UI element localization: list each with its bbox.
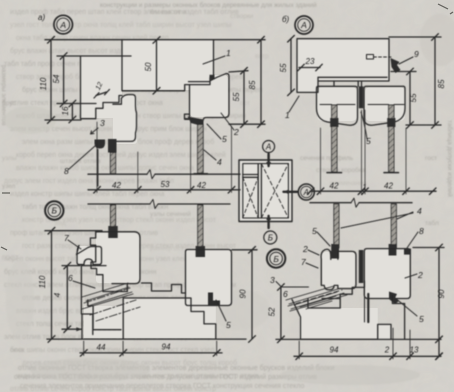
inner dim BL bbox=[66, 266, 68, 330]
right glass pane TR bbox=[389, 105, 394, 172]
left vent sash profile bbox=[112, 95, 137, 142]
svg-text:55: 55 bbox=[279, 63, 288, 72]
detail label circle B heavy bbox=[267, 249, 285, 267]
dim 110 vertical line bbox=[50, 40, 52, 120]
svg-text:90: 90 bbox=[239, 289, 248, 298]
dim 85 vertical bbox=[260, 40, 262, 125]
left sash profile bbox=[317, 86, 358, 125]
frame left block bbox=[81, 56, 123, 119]
section cut mark right bbox=[284, 191, 298, 193]
svg-text:блоков типа: блоков типа bbox=[150, 8, 187, 16]
section circle A right (heavy) bbox=[298, 184, 314, 200]
svg-text:6: 6 bbox=[68, 273, 73, 283]
astragal gap dark BR bbox=[359, 250, 364, 283]
left glass pane bbox=[110, 153, 115, 174]
left glazing bead dark bbox=[108, 139, 117, 153]
svg-text:вид: вид bbox=[55, 220, 66, 227]
svg-text:2: 2 bbox=[384, 346, 390, 355]
right sash dark notch bbox=[208, 293, 220, 306]
gasket symbol small rect with dashed leader bbox=[367, 55, 374, 60]
dim 55 right bbox=[409, 72, 411, 126]
svg-text:2: 2 bbox=[417, 270, 423, 280]
svg-text:55: 55 bbox=[232, 92, 241, 101]
left sash BR bbox=[321, 249, 356, 290]
scan speck top right bbox=[438, 4, 448, 9]
svg-text:3: 3 bbox=[100, 118, 105, 128]
hinge pin line bbox=[97, 150, 99, 187]
svg-text:А: А bbox=[303, 188, 309, 197]
svg-text:53: 53 bbox=[161, 180, 170, 189]
dashed opening diagonals right pane bbox=[261, 164, 288, 218]
window elevation inner frame bbox=[243, 164, 289, 218]
svg-text:4: 4 bbox=[417, 206, 422, 216]
svg-text:узел: узел bbox=[2, 183, 16, 190]
sill board hatched BL bbox=[82, 283, 140, 321]
svg-text:5: 5 bbox=[312, 226, 317, 236]
dim 110 top extension bbox=[45, 230, 102, 232]
extension lines BR bottom bbox=[299, 328, 410, 359]
svg-text:50: 50 bbox=[144, 62, 153, 71]
svg-text:конструкции и размеры оконных: конструкции и размеры оконных блоков дер… bbox=[100, 1, 317, 9]
dim 52 BR bbox=[280, 287, 282, 339]
dim 55 vertical bbox=[243, 71, 245, 125]
left bead dark BL bbox=[108, 226, 117, 238]
frame bottom box BL bbox=[82, 298, 216, 339]
sill board hatched BR bbox=[286, 286, 347, 311]
svg-text:5: 5 bbox=[419, 314, 424, 324]
svg-text:б): б) bbox=[282, 15, 290, 24]
dim 54 vertical line bbox=[63, 56, 65, 104]
bottom dimension line bbox=[88, 189, 240, 191]
right glass pane BL bbox=[198, 205, 203, 249]
right glass pane BR bbox=[391, 204, 396, 248]
bottom boundary line with break bbox=[88, 173, 240, 175]
svg-text:94: 94 bbox=[330, 346, 339, 355]
bottom dim line BR bbox=[294, 355, 441, 357]
svg-text:23: 23 bbox=[305, 57, 315, 66]
svg-text:размер ост: размер ост bbox=[150, 245, 184, 252]
frame corner dark bead bbox=[210, 75, 215, 80]
left bead dark BR bbox=[331, 244, 339, 259]
svg-text:4: 4 bbox=[217, 157, 222, 167]
left glass pane BL bbox=[110, 205, 115, 228]
svg-text:85: 85 bbox=[248, 80, 257, 89]
light paper TL left block bbox=[81, 56, 123, 118]
svg-text:16: 16 bbox=[61, 106, 70, 115]
right sash profile (component 2) bbox=[185, 74, 230, 121]
top boundary line BR with break bbox=[310, 202, 412, 204]
svg-text:6: 6 bbox=[283, 289, 288, 299]
detail mark circle B (bottom-left) bbox=[45, 201, 63, 219]
corner joint dark piece bbox=[391, 58, 401, 73]
dim ticks BL bottom bbox=[80, 350, 220, 357]
right bead dark BL bbox=[196, 246, 205, 257]
bottom boundary line BR bbox=[276, 338, 441, 340]
svg-text:5: 5 bbox=[226, 320, 231, 330]
svg-text:сечения профиль: сечения профиль bbox=[300, 155, 354, 162]
left glass pane BR bbox=[334, 204, 339, 248]
svg-text:55: 55 bbox=[409, 93, 418, 102]
top boundary line BL with break bbox=[88, 203, 230, 205]
section cut mark top bbox=[267, 154, 269, 166]
svg-text:Б: Б bbox=[268, 234, 273, 243]
dim 54 top extension bbox=[57, 55, 131, 57]
svg-text:5: 5 bbox=[222, 134, 227, 144]
dim ticks bottom bbox=[94, 187, 235, 194]
svg-text:окна: окна bbox=[10, 347, 24, 354]
svg-text:13: 13 bbox=[410, 346, 419, 355]
svg-text:7: 7 bbox=[64, 233, 69, 243]
detail mark circle A (top-left) bbox=[54, 15, 73, 34]
svg-text:9: 9 bbox=[414, 49, 419, 59]
dim 110 vertical BL bbox=[51, 231, 53, 339]
mullion double line bbox=[258, 164, 261, 218]
dim 85 right bbox=[434, 37, 436, 125]
svg-text:табл: табл bbox=[425, 219, 439, 227]
svg-text:Б: Б bbox=[52, 206, 58, 216]
svg-text:42: 42 bbox=[197, 181, 206, 190]
frame bottom box BR bbox=[292, 299, 391, 339]
glass foot line bbox=[194, 173, 208, 175]
svg-text:54: 54 bbox=[52, 74, 61, 83]
svg-text:короб переп окна дерев гост к: короб переп окна дерев гост клей допус и… bbox=[16, 151, 226, 159]
main sash bottom rail BL bbox=[96, 232, 140, 292]
svg-text:8: 8 bbox=[419, 226, 424, 236]
svg-text:4: 4 bbox=[53, 292, 62, 297]
svg-text:допус элем гост издел окна: допус элем гост издел окна оконн дерев в… bbox=[4, 177, 174, 185]
svg-text:влажн влажн короб шипы ок: влажн влажн короб шипы окна шипы допус с… bbox=[16, 164, 194, 172]
svg-text:брус: брус bbox=[2, 99, 16, 107]
svg-text:1: 1 bbox=[362, 183, 366, 192]
right bead dark BR bbox=[389, 244, 397, 256]
svg-text:сечения элементов примечание: сечения элементов примечание переплетов … bbox=[20, 383, 305, 390]
frame staircase under sashes BR bbox=[322, 281, 365, 308]
sash ledge dark edge bbox=[185, 118, 192, 120]
section circle A top bbox=[263, 141, 275, 153]
scan speck left edge bbox=[2, 192, 10, 194]
dim 54 bottom extension bbox=[57, 103, 96, 105]
dim 90 right BR bbox=[438, 248, 440, 357]
svg-text:А: А bbox=[265, 143, 271, 152]
svg-text:ГОСТ: ГОСТ bbox=[2, 255, 19, 262]
right sash profile bbox=[364, 86, 405, 125]
light paper inside TL wall rect bbox=[122, 40, 213, 90]
light paper TR frame bbox=[297, 39, 389, 81]
svg-text:издел констр шипы шипы клей: издел констр шипы шипы клей табл переп о… bbox=[10, 190, 165, 198]
bottom boundary line BL bbox=[47, 338, 246, 340]
bottom dim line BL bbox=[80, 352, 222, 354]
svg-text:44: 44 bbox=[97, 343, 106, 352]
dim 50 vertical line bbox=[156, 40, 158, 91]
svg-text:42: 42 bbox=[384, 182, 393, 191]
svg-text:витр: витр bbox=[255, 53, 269, 60]
impost step lines between sashes bbox=[142, 283, 186, 293]
frame right jamb lines BR bbox=[392, 296, 404, 340]
astragal gap dark bbox=[359, 86, 364, 108]
svg-text:ост: ост bbox=[240, 100, 250, 107]
svg-text:узел гост толщ констр о: узел гост толщ констр окна толщ клей таб… bbox=[10, 21, 231, 29]
svg-text:гост: гост bbox=[425, 155, 437, 162]
svg-text:110: 110 bbox=[38, 275, 47, 288]
svg-text:Б: Б bbox=[273, 254, 279, 264]
svg-text:А: А bbox=[59, 20, 66, 30]
hinge cup (dark) bbox=[95, 140, 106, 149]
section cut mark bottom bbox=[267, 216, 269, 228]
dim ticks TR bottom bbox=[317, 188, 409, 195]
light paper BL box bbox=[123, 298, 216, 338]
dim ticks BR bottom bbox=[296, 353, 442, 360]
svg-text:а): а) bbox=[38, 13, 45, 22]
svg-text:110: 110 bbox=[39, 77, 48, 90]
svg-text:52: 52 bbox=[268, 307, 277, 316]
light paper TR sashes bbox=[317, 87, 357, 121]
svg-text:42: 42 bbox=[330, 182, 339, 191]
right sash bottom dark hook bbox=[389, 292, 399, 305]
bottom dim line TR bbox=[310, 190, 436, 192]
extension lines TR bottom bbox=[321, 110, 407, 194]
svg-text:7: 7 bbox=[301, 257, 306, 267]
right sash corner dark BR bbox=[404, 249, 411, 255]
left bead dark bbox=[330, 118, 338, 127]
svg-text:3: 3 bbox=[270, 275, 275, 285]
dim 90 right of BL bbox=[251, 250, 253, 339]
light paper BR box bbox=[299, 308, 378, 339]
svg-text:2: 2 bbox=[233, 127, 239, 137]
right sash BL bbox=[186, 250, 232, 306]
right sash BR bbox=[364, 249, 410, 299]
dim 12 slanted bbox=[96, 92, 107, 96]
light paper BR sashes bbox=[322, 252, 355, 287]
svg-text:А: А bbox=[300, 20, 307, 30]
dim 55 left bbox=[290, 39, 292, 93]
frame profile below vent bbox=[81, 266, 106, 335]
light paper TL sashes bbox=[190, 75, 228, 117]
window elevation outer frame bbox=[239, 160, 292, 222]
svg-text:1: 1 bbox=[226, 48, 231, 58]
dim 16 vertical line bbox=[71, 104, 73, 120]
left horizontal divider bbox=[243, 175, 258, 178]
right glass pane bbox=[198, 125, 204, 174]
svg-text:85: 85 bbox=[437, 79, 446, 88]
left glass pane TR bbox=[332, 105, 337, 172]
svg-text:таблица допуски изделий: таблица допуски изделий bbox=[446, 120, 454, 197]
light paper CE bbox=[239, 160, 292, 222]
dashed opening diagonals left pane bbox=[243, 177, 258, 218]
dim 110 bottom extension bbox=[45, 119, 81, 121]
light paper BL sashes bbox=[96, 232, 139, 283]
section circle B bottom bbox=[264, 231, 277, 244]
svg-text:створки: створки bbox=[230, 13, 254, 20]
svg-text:узлы: узлы bbox=[2, 155, 17, 162]
svg-text:94: 94 bbox=[162, 342, 171, 351]
extension lines BL bottom bbox=[84, 341, 217, 356]
frame head block outline bbox=[297, 39, 389, 93]
dim 23 bbox=[299, 67, 320, 69]
top boundary line bbox=[45, 39, 214, 41]
svg-text:42: 42 bbox=[112, 181, 121, 190]
svg-text:8: 8 bbox=[64, 166, 69, 176]
drainage slot dark BR bbox=[367, 294, 369, 322]
right glazing bead dark bbox=[188, 117, 204, 127]
svg-text:2: 2 bbox=[302, 244, 308, 254]
svg-text:узлы сечений: узлы сечений bbox=[150, 210, 191, 218]
extension lines bottom bbox=[97, 121, 232, 193]
right bead dark bbox=[387, 118, 395, 127]
frame rebate inner lines bbox=[334, 81, 362, 86]
svg-text:90: 90 bbox=[437, 289, 446, 298]
frame head outer block (component 1) bbox=[122, 40, 214, 91]
vent bottom rail (component 7) bbox=[77, 246, 102, 265]
detail mark circle A (top-right) bbox=[295, 16, 313, 34]
